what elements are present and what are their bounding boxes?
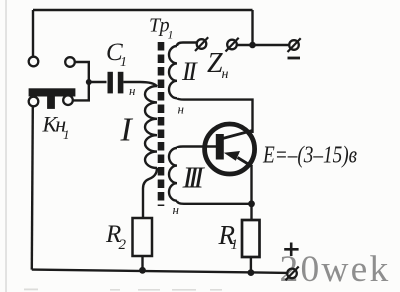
svg-text:1: 1 — [63, 127, 70, 142]
wire left rail lower — [32, 106, 33, 269]
resistor R1 — [242, 220, 260, 257]
wire T2 to T3 — [237, 44, 289, 46]
winding I — [145, 86, 157, 168]
svg-text:н: н — [178, 102, 184, 117]
wire top rail drop to terminals — [251, 10, 253, 45]
svg-text:н: н — [222, 67, 229, 82]
Kn1 contact terminal top-left — [29, 57, 39, 67]
svg-text:н: н — [173, 202, 179, 217]
node junction switch to C1 — [86, 79, 92, 85]
transistor VT1 circle — [205, 124, 255, 174]
wire winding II to terminal T1 — [177, 43, 197, 47]
winding II — [169, 46, 177, 98]
Kn1 contact terminal bottom-left — [29, 97, 39, 107]
terminal T2 — [226, 38, 239, 52]
minus sign — [288, 57, 301, 60]
Kn1 contact terminal top-right — [65, 57, 75, 67]
wire emitter to R1 — [250, 166, 252, 221]
node junction emitter R1 — [248, 200, 255, 207]
wire winding II to collector — [177, 98, 253, 133]
node junction R2 rail — [139, 267, 146, 274]
wire node to C1 — [89, 81, 107, 83]
transformer Tr1 core — [158, 42, 165, 206]
svg-text:E=–(3–15)в: E=–(3–15)в — [262, 143, 357, 169]
faint caption remnants — [24, 289, 222, 291]
bottom rail — [32, 270, 287, 273]
wire winding III to base — [177, 147, 217, 149]
terminal T3 — [288, 38, 301, 52]
winding III — [169, 148, 177, 201]
transistor collector line — [223, 131, 253, 139]
capacitor C1 — [108, 72, 124, 94]
wire R1 to bottom rail — [250, 257, 252, 273]
battery plus terminal — [286, 267, 299, 281]
resistor R2 — [133, 218, 153, 256]
wire C1 to winding I — [123, 82, 157, 87]
transistor emitter arrow — [224, 151, 240, 161]
svg-text:1: 1 — [231, 237, 239, 253]
transistor base bar — [216, 134, 224, 160]
pushbutton Kn1 bar — [29, 88, 76, 109]
node junction at terminal row — [249, 42, 256, 49]
transistor emitter line — [238, 158, 253, 167]
svg-text:2: 2 — [119, 237, 127, 253]
plus sign — [284, 243, 298, 257]
wire winding I to R2 — [143, 168, 157, 218]
scan edge line — [5, 0, 7, 292]
terminal T1 — [195, 37, 208, 51]
wire left rail upper — [32, 10, 34, 57]
wire top rail — [33, 9, 253, 11]
node junction R1 rail — [248, 269, 255, 276]
wire winding III to emitter node — [177, 201, 252, 204]
svg-text:н: н — [129, 83, 135, 98]
wire switch right contacts to C1 node — [73, 62, 89, 100]
svg-text:I: I — [120, 112, 134, 149]
svg-text:1: 1 — [120, 55, 127, 70]
svg-text:1: 1 — [168, 28, 174, 42]
wire R2 to bottom rail — [141, 256, 143, 270]
Kn1 contact terminal bottom-right — [63, 95, 73, 105]
